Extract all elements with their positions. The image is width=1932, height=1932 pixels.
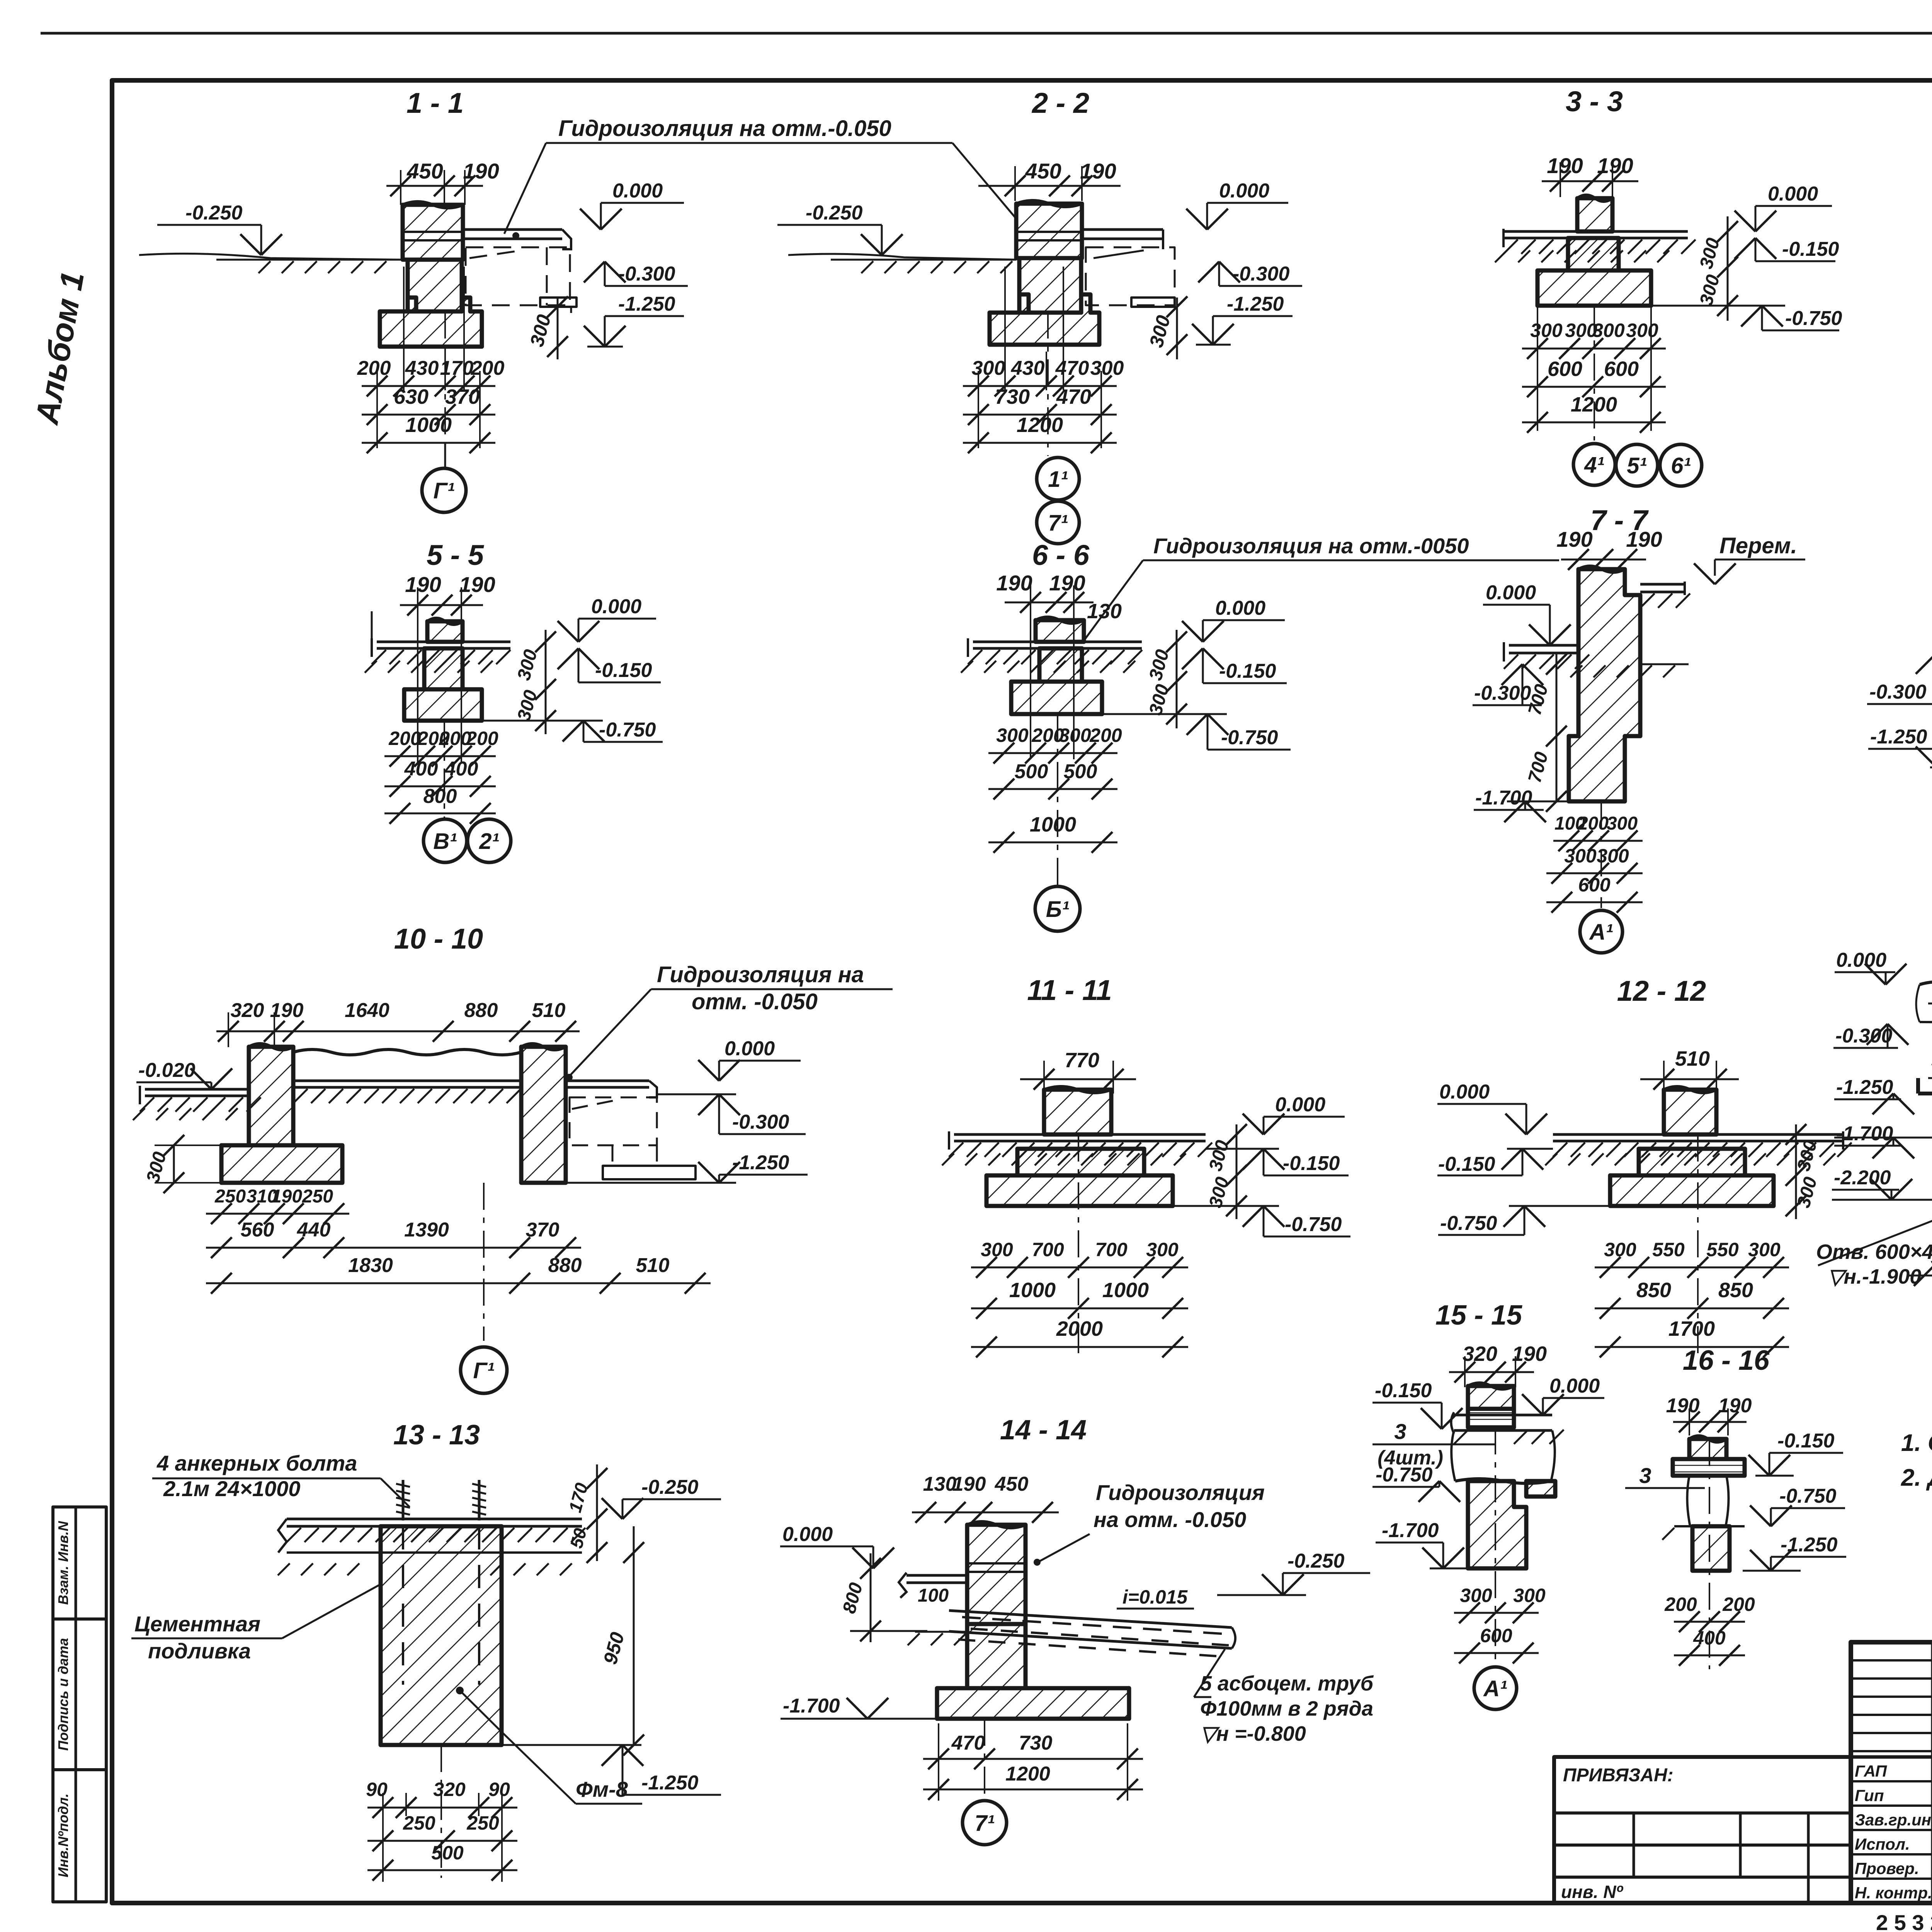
svg-text:-0.150: -0.150 <box>1283 1152 1340 1175</box>
section 15-15 torn wall break <box>1451 1430 1455 1481</box>
svg-text:і=0.015: і=0.015 <box>1122 1586 1188 1608</box>
section 15-15 stem top hatched <box>1468 1386 1514 1409</box>
svg-text:600: 600 <box>1480 1625 1512 1646</box>
svg-text:370: 370 <box>526 1219 560 1241</box>
svg-text:2000: 2000 <box>1056 1317 1103 1340</box>
svg-text:0.000: 0.000 <box>1439 1081 1490 1103</box>
section 5-5 axis line <box>444 721 445 818</box>
section 15-15 floor slab <box>1454 1414 1552 1417</box>
section 2-2 stem below ground <box>1019 258 1081 313</box>
section 14-14 dimension chains <box>938 1723 939 1801</box>
svg-text:-1.700: -1.700 <box>783 1695 840 1717</box>
section 2-2 floor slab right <box>1082 228 1163 231</box>
svg-text:1000: 1000 <box>1102 1279 1149 1302</box>
section 11-11 footing upper step <box>1017 1149 1144 1175</box>
svg-text:А¹: А¹ <box>1483 1676 1507 1701</box>
section 6-6 vertical dims 300 300 <box>1176 630 1178 728</box>
section 6-6 stem below ground <box>1039 648 1082 682</box>
svg-text:Гидроизоляция: Гидроизоляция <box>1096 1480 1265 1505</box>
svg-text:200: 200 <box>357 357 391 379</box>
svg-text:300: 300 <box>1059 724 1091 746</box>
section 2-2 axis circle 71 <box>1037 501 1079 544</box>
section 3-3 stem hatched <box>1577 198 1612 231</box>
section 15-15 axis circle A1 <box>1474 1667 1517 1709</box>
svg-text:300: 300 <box>1607 813 1638 834</box>
svg-text:14 - 14: 14 - 14 <box>1000 1415 1087 1446</box>
svg-text:-0.250: -0.250 <box>806 202 863 224</box>
section 2-2 vertical dim 300 <box>1176 298 1178 359</box>
svg-text:300: 300 <box>1146 1239 1179 1260</box>
svg-text:190: 190 <box>405 572 441 597</box>
svg-text:320: 320 <box>231 999 264 1022</box>
svg-text:Зав.гр.ин.: Зав.гр.ин. <box>1855 1811 1932 1829</box>
section 6-6 axis circle B1 <box>1035 886 1080 931</box>
svg-text:450: 450 <box>406 159 443 183</box>
svg-text:Взам. Инв.N: Взам. Инв.N <box>55 1521 71 1605</box>
svg-text:▽н =-0.800: ▽н =-0.800 <box>1200 1722 1306 1745</box>
svg-text:370: 370 <box>445 385 480 408</box>
svg-text:-0.750: -0.750 <box>599 719 656 741</box>
svg-text:Инв.Nºподл.: Инв.Nºподл. <box>55 1793 71 1877</box>
svg-text:-2.200: -2.200 <box>1834 1167 1891 1189</box>
section 3-3 stem below ground <box>1568 238 1619 270</box>
svg-text:-0.300: -0.300 <box>732 1111 789 1133</box>
section 16-16 lower stem hatched <box>1692 1526 1730 1571</box>
svg-text:600: 600 <box>1578 874 1611 896</box>
svg-text:-0.150: -0.150 <box>1219 660 1276 682</box>
svg-text:300: 300 <box>996 724 1029 746</box>
svg-text:3 - 3: 3 - 3 <box>1566 85 1623 117</box>
section 1-1 vertical dim 300 <box>557 298 559 359</box>
section 12-12 dimension chains <box>1595 1267 1789 1269</box>
section 6-6 dimension chains <box>1030 618 1031 759</box>
section 2-2 axis circle 11 <box>1037 457 1079 500</box>
svg-text:470: 470 <box>1056 385 1091 408</box>
section 16-16 dimension chains <box>1674 1621 1745 1623</box>
section 14-14 vertical dim 800 <box>870 1553 872 1642</box>
svg-text:190: 190 <box>1556 527 1592 551</box>
svg-text:3: 3 <box>1394 1419 1406 1444</box>
svg-text:200: 200 <box>471 357 505 379</box>
title block upper revision rows <box>1851 1659 1932 1662</box>
svg-text:Перем.: Перем. <box>1719 533 1797 558</box>
svg-text:450: 450 <box>995 1473 1029 1495</box>
svg-text:2.1м 24×1000: 2.1м 24×1000 <box>163 1476 300 1501</box>
section 1-1 axis line <box>444 311 446 468</box>
svg-text:1¹: 1¹ <box>1048 467 1068 492</box>
svg-text:-1.700: -1.700 <box>1836 1122 1893 1145</box>
svg-text:6¹: 6¹ <box>1671 453 1691 478</box>
svg-text:Гип: Гип <box>1855 1786 1884 1804</box>
section 7-7 tall wall hatched <box>1569 569 1640 801</box>
svg-text:560: 560 <box>241 1219 274 1241</box>
section 10-10 beam flange bar <box>603 1166 696 1179</box>
svg-text:190: 190 <box>271 1186 302 1207</box>
svg-text:-1.250: -1.250 <box>732 1151 789 1174</box>
svg-text:-1.700: -1.700 <box>1382 1519 1439 1542</box>
section 7-7 dimension chains <box>1553 840 1643 842</box>
svg-text:300: 300 <box>1592 320 1625 341</box>
section 3-3 dimension chains <box>1537 306 1538 431</box>
section 13-13 dimension chains <box>367 1807 517 1809</box>
svg-text:190: 190 <box>952 1473 986 1495</box>
section 1-1 beam flange bar <box>540 298 577 307</box>
svg-text:-0.750: -0.750 <box>1440 1212 1497 1235</box>
svg-text:500: 500 <box>1064 760 1097 783</box>
section 10-10 left footing hatched <box>221 1145 342 1183</box>
svg-text:А¹: А¹ <box>1588 920 1613 945</box>
svg-text:850: 850 <box>1636 1279 1671 1302</box>
svg-text:470: 470 <box>1055 357 1089 379</box>
section 7-7 ground right <box>1640 663 1689 665</box>
section 5-5 stem below ground <box>424 648 463 689</box>
svg-text:250: 250 <box>214 1186 246 1207</box>
section 11-11 floor slab <box>954 1133 1206 1136</box>
svg-text:0.000: 0.000 <box>612 180 663 202</box>
svg-text:450: 450 <box>1025 159 1061 183</box>
section 13-13 bolt dashed lines inside pier <box>402 1526 404 1685</box>
section 6-6 axis line <box>1057 714 1058 886</box>
svg-text:250: 250 <box>403 1812 435 1834</box>
svg-text:320: 320 <box>1463 1342 1497 1366</box>
section 2-2 ground line left <box>831 259 1016 261</box>
svg-text:300: 300 <box>1564 845 1597 867</box>
svg-text:0.000: 0.000 <box>1215 597 1265 619</box>
svg-text:6 - 6: 6 - 6 <box>1032 539 1090 571</box>
left sidebar boxes <box>53 1507 106 1619</box>
svg-text:90: 90 <box>366 1779 388 1800</box>
section 14-14 hydro band <box>967 1562 1026 1565</box>
svg-text:0.000: 0.000 <box>1549 1375 1600 1397</box>
section 16-16 ground line <box>1674 1525 1745 1527</box>
section 1-1 ground line left <box>216 259 403 261</box>
svg-text:300: 300 <box>1090 357 1124 379</box>
svg-text:300: 300 <box>1460 1585 1492 1606</box>
svg-text:510: 510 <box>532 999 566 1022</box>
svg-text:3: 3 <box>1639 1463 1651 1488</box>
section 5-5 dimension chains <box>417 620 418 763</box>
svg-text:Цементная: Цементная <box>134 1612 260 1636</box>
svg-text:600: 600 <box>1604 357 1639 381</box>
section 14-14 pipes bundle <box>949 1611 1232 1628</box>
section 5-5 axis circles <box>423 819 467 862</box>
svg-text:16 - 16: 16 - 16 <box>1683 1345 1770 1376</box>
svg-text:0.000: 0.000 <box>1219 180 1269 202</box>
section 6-6 floor slab <box>973 641 1142 643</box>
svg-text:200: 200 <box>1089 724 1122 746</box>
svg-text:600: 600 <box>1548 357 1582 381</box>
svg-text:190: 190 <box>1049 571 1085 595</box>
svg-text:400: 400 <box>404 758 438 780</box>
section 10-10 right pier hatched <box>521 1047 566 1183</box>
svg-text:-0.750: -0.750 <box>1221 726 1278 749</box>
section 12-12 footing upper step <box>1639 1149 1745 1175</box>
svg-text:0.000: 0.000 <box>1486 582 1536 604</box>
svg-text:10 - 10: 10 - 10 <box>394 923 483 955</box>
section 1-1 stem below ground hatched <box>408 260 462 311</box>
section 16-16 torn wall break <box>1687 1476 1690 1526</box>
svg-text:▽н.-1.900: ▽н.-1.900 <box>1828 1265 1921 1288</box>
svg-text:1830: 1830 <box>348 1254 393 1277</box>
svg-text:300: 300 <box>1604 1239 1636 1260</box>
svg-text:0.000: 0.000 <box>782 1523 833 1546</box>
svg-text:250: 250 <box>466 1812 499 1834</box>
section 15-15 dimension chains <box>1454 1612 1539 1614</box>
section 15-15 right slab stub hatched <box>1526 1481 1555 1497</box>
svg-text:250: 250 <box>302 1186 333 1207</box>
section 12-12 stem hatched <box>1664 1090 1716 1134</box>
section 10-10 dimension chains <box>206 1213 349 1215</box>
svg-text:-0.150: -0.150 <box>595 659 652 682</box>
svg-text:510: 510 <box>636 1254 670 1277</box>
section 13-13 anchor bolt right <box>478 1480 481 1520</box>
section 14-14 axis circle 71 <box>963 1801 1007 1845</box>
svg-text:550: 550 <box>1652 1239 1685 1260</box>
svg-text:-0.250: -0.250 <box>1287 1550 1345 1572</box>
section 14-14 stem below hatched <box>967 1624 1026 1688</box>
section 11-11 vertical dims 300 300 <box>1236 1124 1238 1219</box>
svg-text:подливка: подливка <box>148 1639 251 1663</box>
section 17-17 pit profile <box>1918 1094 1932 1200</box>
svg-text:-1.700: -1.700 <box>1475 787 1532 809</box>
svg-text:-1.250: -1.250 <box>618 293 675 315</box>
svg-text:15 - 15: 15 - 15 <box>1435 1300 1522 1331</box>
section 7-7 axis circle A1 <box>1580 910 1622 953</box>
section 7-7 right floor slab <box>1640 583 1685 586</box>
svg-text:440: 440 <box>297 1219 331 1241</box>
svg-text:190: 190 <box>1597 153 1633 178</box>
svg-text:730: 730 <box>1019 1732 1053 1754</box>
svg-text:1. Общие данные см. листы: 1. Общие данные см. листы 4;5 <box>1901 1430 1932 1456</box>
section 14-14 left floor slab <box>906 1574 967 1577</box>
svg-text:300: 300 <box>1626 320 1658 341</box>
section 1-1 floor slab right <box>463 228 562 231</box>
section 3-3 floor slab <box>1503 230 1688 233</box>
svg-text:300: 300 <box>1530 320 1563 341</box>
section 6-6 footing <box>1011 682 1102 714</box>
svg-text:Г¹: Г¹ <box>434 478 455 503</box>
section 11-11 dimension chains <box>971 1267 1188 1269</box>
svg-text:130: 130 <box>923 1473 957 1495</box>
section 10-10 vertical dim 300 left <box>173 1145 175 1183</box>
section 11-11 stem hatched <box>1044 1090 1111 1134</box>
section 1-1 dimension chains <box>403 267 405 390</box>
section 15-15 lower hatched block <box>1468 1481 1526 1568</box>
svg-text:300: 300 <box>1513 1585 1546 1606</box>
svg-text:Испол.: Испол. <box>1855 1835 1910 1853</box>
svg-text:-0.250: -0.250 <box>185 202 243 224</box>
svg-text:13 - 13: 13 - 13 <box>393 1420 480 1451</box>
svg-text:1200: 1200 <box>1017 413 1063 437</box>
svg-text:500: 500 <box>1931 1247 1932 1269</box>
svg-text:ГАП: ГАП <box>1855 1762 1887 1780</box>
svg-text:730: 730 <box>995 385 1030 408</box>
svg-text:1640: 1640 <box>345 999 389 1022</box>
section 1-1 hydro band <box>403 231 463 233</box>
section 17-17 center dash line <box>1928 1003 1932 1005</box>
svg-text:Фм-8: Фм-8 <box>576 1777 628 1801</box>
svg-text:-0.750: -0.750 <box>1285 1213 1342 1236</box>
svg-text:880: 880 <box>548 1254 582 1277</box>
section 15-15 axis line <box>1495 1427 1496 1665</box>
svg-text:500: 500 <box>1015 760 1048 783</box>
svg-text:200: 200 <box>466 728 498 749</box>
svg-text:0.000: 0.000 <box>591 595 641 618</box>
svg-text:2 5 3 2 4 - 0 1: 2 5 3 2 4 - 0 1 <box>1876 1910 1932 1932</box>
svg-text:200: 200 <box>1722 1594 1755 1615</box>
section 5-5 footing <box>404 689 482 721</box>
svg-text:800: 800 <box>423 785 457 808</box>
section 10-10 floor slab between piers <box>293 1080 521 1082</box>
section 7-7 axis line <box>1600 801 1602 908</box>
svg-text:190: 190 <box>1512 1342 1547 1366</box>
svg-text:190: 190 <box>463 159 499 183</box>
section 5-5 vertical dims 300 300 <box>545 630 547 734</box>
section 16-16 axis line <box>1709 1439 1710 1669</box>
section 10-10 axis line <box>483 1183 485 1341</box>
svg-text:-0.750: -0.750 <box>1779 1485 1837 1507</box>
svg-text:0.000: 0.000 <box>724 1037 775 1060</box>
svg-text:-0.250: -0.250 <box>641 1476 699 1498</box>
svg-text:500: 500 <box>431 1842 464 1864</box>
section 14-14 footing hatched <box>937 1688 1129 1719</box>
section 3-3 footing <box>1537 270 1651 306</box>
svg-text:-0.300: -0.300 <box>618 263 675 285</box>
section 12-12 floor slab <box>1553 1133 1843 1136</box>
svg-text:-1.250: -1.250 <box>1836 1076 1893 1099</box>
svg-text:190: 190 <box>1080 159 1116 183</box>
svg-text:0.000: 0.000 <box>1768 183 1818 205</box>
svg-text:190: 190 <box>1547 153 1583 178</box>
section 7-7 vertical dims 700 700 <box>1556 653 1558 801</box>
svg-text:1 - 1: 1 - 1 <box>406 87 464 119</box>
svg-text:430: 430 <box>405 357 439 379</box>
section 1-1 dashed foundation beam <box>466 247 570 305</box>
section 16-16 slab band cross-hatched <box>1673 1459 1745 1476</box>
svg-text:4 анкерных болта: 4 анкерных болта <box>156 1451 357 1475</box>
svg-text:200: 200 <box>1577 813 1609 834</box>
svg-text:-0.150: -0.150 <box>1777 1430 1835 1452</box>
svg-text:1390: 1390 <box>404 1219 449 1241</box>
section 10-10 dashed beam right <box>570 1097 657 1145</box>
section 10-10 left floor slab <box>145 1088 249 1091</box>
svg-text:550: 550 <box>1706 1239 1739 1260</box>
svg-text:1000: 1000 <box>1030 813 1076 836</box>
svg-text:300: 300 <box>1748 1239 1781 1260</box>
section 11-11 footing lower slab <box>986 1175 1173 1206</box>
svg-text:Гидроизоляция на отм.-0050: Гидроизоляция на отм.-0050 <box>1153 534 1469 558</box>
section 15-15 anchor band cross-hatched <box>1468 1409 1514 1427</box>
section 13-13 anchor bolt left <box>402 1480 405 1520</box>
section 2-2 wall stem hatched <box>1016 204 1082 258</box>
svg-text:190: 190 <box>996 571 1032 595</box>
svg-text:0.000: 0.000 <box>1275 1094 1325 1116</box>
svg-text:-0.150: -0.150 <box>1782 238 1839 260</box>
section 10-10 axis circle G1 <box>461 1347 507 1393</box>
svg-text:-0.300: -0.300 <box>1233 263 1290 285</box>
svg-text:630: 630 <box>394 385 429 408</box>
section 10-10 left pier hatched <box>249 1047 293 1145</box>
svg-text:700: 700 <box>1032 1239 1064 1260</box>
section 13-13 vertical dim 950 <box>633 1526 635 1745</box>
svg-text:880: 880 <box>464 999 498 1022</box>
svg-text:90: 90 <box>488 1779 510 1800</box>
section 3-3 axis line <box>1594 306 1595 440</box>
section 2-2 dashed beam <box>1086 247 1175 305</box>
section 3-3 vertical dims 300 300 <box>1727 216 1729 321</box>
section 13-13 floor slab <box>287 1518 582 1520</box>
section 13-13 pier hatched <box>381 1526 502 1745</box>
svg-text:190: 190 <box>459 572 495 597</box>
section 16-16 stem top hatched <box>1689 1439 1726 1459</box>
svg-text:-0.020: -0.020 <box>138 1059 196 1082</box>
svg-text:320: 320 <box>433 1779 466 1800</box>
svg-text:Б¹: Б¹ <box>1046 897 1069 922</box>
title block outer frame <box>1851 1642 1932 1903</box>
section 7-7 left floor slab <box>1509 644 1578 647</box>
svg-text:2 - 2: 2 - 2 <box>1031 87 1089 119</box>
svg-text:Гидроизоляция на: Гидроизоляция на <box>657 962 864 987</box>
svg-text:190: 190 <box>1626 527 1662 551</box>
svg-text:Н. контр.: Н. контр. <box>1855 1884 1932 1902</box>
svg-text:4¹: 4¹ <box>1584 452 1604 478</box>
svg-text:200: 200 <box>1664 1594 1697 1615</box>
svg-text:1700: 1700 <box>1668 1317 1715 1340</box>
section 2-2 dimension chains <box>1004 267 1006 390</box>
section 14-14 stem hatched <box>967 1525 1026 1624</box>
svg-text:100: 100 <box>918 1585 949 1606</box>
title block left columns <box>1931 1642 1932 1903</box>
section 10-10 torn wall between piers <box>293 1049 521 1055</box>
svg-text:В¹: В¹ <box>433 829 457 854</box>
section 12-12 vertical dims 300 300 right <box>1795 1124 1797 1219</box>
svg-text:2. Данный лист см. совместно: 2. Данный лист см. совместно с листом АС… <box>1901 1464 1932 1491</box>
svg-text:инв. Nº: инв. Nº <box>1561 1882 1623 1902</box>
svg-text:-0.150: -0.150 <box>1375 1379 1432 1402</box>
svg-text:5¹: 5¹ <box>1627 453 1647 478</box>
svg-text:200: 200 <box>388 728 421 749</box>
svg-text:470: 470 <box>951 1732 985 1754</box>
section 1-1 footing hatched <box>380 298 482 347</box>
svg-text:-0.750: -0.750 <box>1376 1464 1433 1486</box>
svg-text:Ф100мм в 2 ряда: Ф100мм в 2 ряда <box>1200 1697 1373 1720</box>
svg-text:отм. -0.050: отм. -0.050 <box>692 989 818 1014</box>
section 13-13 vertical dims 170 50 <box>596 1464 598 1561</box>
svg-text:-1.250: -1.250 <box>1870 726 1927 748</box>
section 6-6 stem hatched <box>1036 620 1084 642</box>
svg-text:Гидроизоляция на отм.-0.050: Гидроизоляция на отм.-0.050 <box>558 116 891 141</box>
svg-text:-1.250: -1.250 <box>641 1772 699 1794</box>
svg-text:Г¹: Г¹ <box>473 1358 495 1383</box>
svg-text:300: 300 <box>972 357 1005 379</box>
svg-text:на отм. -0.050: на отм. -0.050 <box>1094 1507 1246 1532</box>
svg-text:5 - 5: 5 - 5 <box>427 539 485 571</box>
section 10-10 right floor slab <box>566 1080 649 1082</box>
svg-text:12 - 12: 12 - 12 <box>1617 975 1706 1007</box>
svg-text:-1.250: -1.250 <box>1227 293 1284 315</box>
svg-text:Провер.: Провер. <box>1855 1859 1919 1878</box>
svg-text:770: 770 <box>1065 1049 1099 1072</box>
section 3-3 axis circles <box>1573 444 1615 485</box>
svg-text:700: 700 <box>1095 1239 1128 1260</box>
svg-text:ПРИВЯЗАН:: ПРИВЯЗАН: <box>1563 1765 1673 1786</box>
svg-text:300: 300 <box>981 1239 1013 1260</box>
svg-text:7¹: 7¹ <box>1048 510 1068 536</box>
svg-text:190: 190 <box>1666 1395 1700 1417</box>
section 2-2 beam flange bar <box>1131 298 1175 307</box>
svg-text:-0.750: -0.750 <box>1785 307 1842 330</box>
svg-text:850: 850 <box>1718 1279 1753 1302</box>
